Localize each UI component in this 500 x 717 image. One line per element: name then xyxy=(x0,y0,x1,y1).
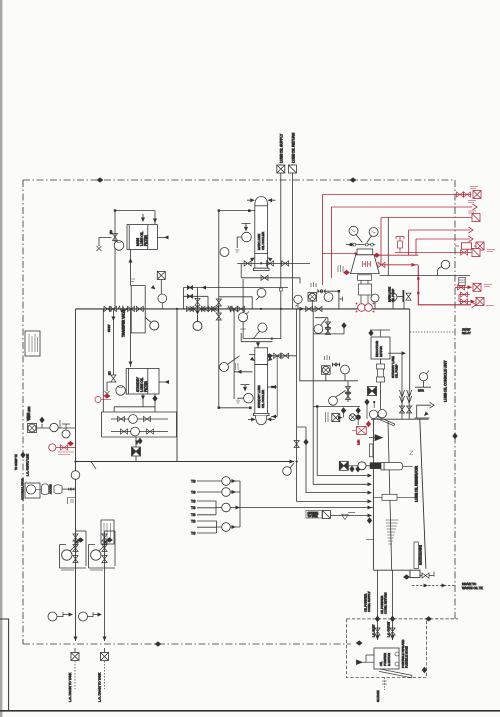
checkered box xyxy=(132,447,141,456)
right stub xyxy=(268,386,273,388)
governor rect xyxy=(357,249,373,255)
red frame riser 1 xyxy=(323,195,472,286)
relief sub-circuit xyxy=(184,288,289,309)
riser to tank top xyxy=(408,390,410,419)
induction motor box xyxy=(371,337,390,359)
svg-text:L.O. DRAIN TO TANK: L.O. DRAIN TO TANK xyxy=(98,673,102,702)
level gauge on left wall xyxy=(369,444,373,457)
wire riser from header xyxy=(103,309,130,412)
gear box xyxy=(359,284,372,295)
wire left main riser xyxy=(75,309,77,641)
note box xyxy=(25,331,40,356)
red bracket rows 294.5/301.5 xyxy=(459,295,475,302)
level mark xyxy=(342,515,349,520)
checkered boxes xyxy=(368,387,377,396)
X boxes xyxy=(71,653,79,661)
filter outlet bottom xyxy=(114,394,155,412)
marks above xyxy=(325,355,330,360)
red H marks in trapezoid xyxy=(363,261,371,267)
right vertical xyxy=(387,218,389,276)
wire xyxy=(76,461,294,463)
svg-text:TRANSFER VALVE: TRANSFER VALVE xyxy=(122,309,126,337)
wire riser supply xyxy=(280,173,282,310)
scan edge band xyxy=(0,0,2,717)
svg-text:TS: TS xyxy=(191,480,196,484)
circle instrument xyxy=(324,293,333,302)
wire xyxy=(37,427,76,429)
console boundary dash-dot xyxy=(23,180,455,644)
red internal lines around trapezoid xyxy=(374,254,418,256)
motor X-circle-box xyxy=(308,293,317,302)
relief spur xyxy=(219,297,252,309)
risers from header down xyxy=(176,309,178,462)
svg-text:VENT: VENT xyxy=(26,413,30,421)
svg-text:CONN. SUPPLY: CONN. SUPPLY xyxy=(367,591,371,612)
right line from chamber xyxy=(268,355,296,357)
wire riser 1: outer xyxy=(317,406,370,475)
slash box top xyxy=(289,165,297,173)
red line 304.8 heavy xyxy=(418,265,471,304)
PCV valve sub xyxy=(315,318,328,334)
tank outline xyxy=(371,419,429,570)
junction circle xyxy=(283,467,292,476)
instruments above xyxy=(238,313,247,322)
discharge slant xyxy=(379,669,412,678)
X-circle-box xyxy=(322,366,331,375)
instrument circle xyxy=(158,294,167,303)
side stub xyxy=(159,381,167,383)
HS element xyxy=(459,277,465,285)
circle xyxy=(341,365,350,374)
svg-text:FILTER: FILTER xyxy=(144,235,148,246)
collector wire xyxy=(230,481,373,527)
circle w diag xyxy=(150,321,159,330)
arrow line xyxy=(388,352,404,354)
flask 2 xyxy=(54,485,62,494)
wire main header xyxy=(76,308,410,310)
circle below header xyxy=(193,322,202,331)
svg-text:FLEXIBLE HOSE: FLEXIBLE HOSE xyxy=(405,646,409,668)
TI instrument xyxy=(242,223,251,230)
motor feed wire xyxy=(370,330,390,337)
svg-text:TS: TS xyxy=(191,532,196,536)
svg-text:ACCUM: ACCUM xyxy=(49,484,53,494)
arrows below xyxy=(137,438,142,445)
svg-text:OIL COOLER: OIL COOLER xyxy=(261,231,265,250)
TI long vertical xyxy=(233,309,235,399)
TS circles xyxy=(222,477,231,486)
coil xyxy=(118,306,126,312)
line y=406.4 xyxy=(313,405,360,407)
svg-text:L.O. DRAIN TO TANK: L.O. DRAIN TO TANK xyxy=(68,673,72,702)
svg-text:TS: TS xyxy=(191,506,196,510)
top line to cooler xyxy=(219,210,255,212)
psv triangle left wall xyxy=(375,435,382,441)
left arrow line xyxy=(362,661,374,663)
header circles xyxy=(371,294,379,302)
red riser 2 xyxy=(332,207,473,278)
header arrow xyxy=(300,307,305,311)
svg-text:NC: NC xyxy=(108,371,112,375)
sub frame xyxy=(68,498,76,505)
transfer circle w slant xyxy=(220,363,229,372)
TI group xyxy=(240,385,249,390)
instruments xyxy=(50,423,58,431)
red line 217 xyxy=(381,218,472,265)
strainer coupler xyxy=(358,462,366,470)
bottom pot xyxy=(410,570,420,577)
svg-text:TO SUMP TK: TO SUMP TK xyxy=(14,454,18,470)
wire riser 3 xyxy=(297,427,370,493)
wall diamond xyxy=(367,517,372,524)
long left vertical xyxy=(218,211,220,408)
terminal syms top xyxy=(457,192,464,197)
red line 239 xyxy=(416,239,470,255)
svg-text:WASTE OIL TK: WASTE OIL TK xyxy=(462,586,483,590)
svg-text:LUBE OIL CONSOLE UNIT: LUBE OIL CONSOLE UNIT xyxy=(444,360,448,402)
standby filter box xyxy=(126,368,159,394)
lower coupling xyxy=(358,275,372,281)
red tag xyxy=(95,393,111,402)
header valves xyxy=(104,306,111,311)
red pumps on header xyxy=(358,304,366,312)
marks above xyxy=(311,282,316,287)
pump2 xyxy=(89,545,116,569)
gauges xyxy=(349,226,358,235)
svg-text:MOTOR: MOTOR xyxy=(379,346,383,357)
transfer valve tall box xyxy=(131,286,145,333)
svg-text:TS: TS xyxy=(191,491,196,495)
vent xbox circle xyxy=(28,424,37,433)
label box lower left xyxy=(101,520,114,544)
arrows to boundary xyxy=(74,637,78,642)
wire top header xyxy=(115,211,155,310)
wire pipe1 xyxy=(377,570,379,640)
tiny reducer on riser xyxy=(279,288,282,291)
svg-text:ST-BY: ST-BY xyxy=(107,324,111,332)
valve on vertical xyxy=(111,375,116,382)
coupling xyxy=(380,359,382,364)
svg-text:SUCTION PIPE: SUCTION PIPE xyxy=(419,545,423,565)
hanging cluster xyxy=(341,407,346,414)
red line 252.5 xyxy=(395,252,472,254)
main lube oil filter box xyxy=(127,225,157,250)
svg-text:CONN. RETURN: CONN. RETURN xyxy=(384,593,388,614)
dome inward arrows xyxy=(250,198,255,202)
trapezoid xyxy=(351,255,380,274)
svg-text:& MOTOR: & MOTOR xyxy=(387,653,391,666)
top feed xyxy=(241,333,272,348)
drop to lower run xyxy=(241,263,300,283)
svg-text:LUBE OIL RESERVOIR: LUBE OIL RESERVOIR xyxy=(415,465,419,502)
left text ticks xyxy=(338,265,343,272)
svg-text:L.O. OUTLET: L.O. OUTLET xyxy=(388,621,391,637)
dashed enclosure xyxy=(347,619,427,678)
chamber side arrows xyxy=(250,357,256,363)
svg-text:LUBE OIL SUPPLY: LUBE OIL SUPPLY xyxy=(280,133,284,163)
tank right wall slanted xyxy=(420,419,426,569)
svg-text:MTR: MTR xyxy=(418,389,424,393)
overflow corner xyxy=(417,405,431,418)
red line 246 xyxy=(455,245,476,247)
flask 1 xyxy=(42,484,49,495)
wire pipe2 xyxy=(392,570,394,640)
vertical w valves xyxy=(347,381,349,402)
wire filter outlet down xyxy=(130,250,132,286)
shell: chamber top, dome bottom xyxy=(255,348,268,365)
bottom-left frame xyxy=(0,619,9,710)
svg-text:TO TANK: TO TANK xyxy=(308,515,319,518)
X box top xyxy=(277,165,285,173)
svg-text:FILTER: FILTER xyxy=(144,381,148,392)
bottom left feed from long vertical xyxy=(219,407,251,409)
TCV symbol xyxy=(398,241,403,248)
figure-8 pump on tank top xyxy=(369,410,377,418)
svg-text:SLUDGE: SLUDGE xyxy=(376,690,380,702)
pump motor link xyxy=(397,296,402,298)
svg-text:NC: NC xyxy=(109,230,113,234)
wire riser return xyxy=(292,173,294,310)
dotted start relay line xyxy=(410,331,454,333)
wire suction branch xyxy=(300,309,358,381)
filled bowties xyxy=(318,289,322,294)
strainer feed xyxy=(348,465,358,467)
suction thermometer xyxy=(414,542,418,569)
svg-text:L.O. INLET: L.O. INLET xyxy=(373,624,376,637)
second coil xyxy=(228,306,236,311)
sub header y=263.4 xyxy=(237,262,310,264)
svg-text:START: START xyxy=(462,328,471,332)
heater frame xyxy=(102,412,177,437)
instrument with slant xyxy=(329,396,338,405)
pump circle xyxy=(116,386,126,396)
shaft line from trapezoid xyxy=(380,275,471,277)
bottom border xyxy=(0,710,500,712)
heater element xyxy=(382,494,397,500)
connector row xyxy=(346,244,375,246)
diamonds xyxy=(356,640,363,645)
circ pumps xyxy=(129,415,138,424)
pump circle PI xyxy=(114,241,124,251)
valve on vertical xyxy=(112,234,117,241)
outside-to-tank label xyxy=(306,511,322,519)
svg-text:OIL COOLER: OIL COOLER xyxy=(261,389,265,408)
red line 230 xyxy=(409,230,470,255)
svg-text:LSH: LSH xyxy=(357,440,361,445)
X-box vent xyxy=(157,271,165,279)
filter side stub xyxy=(157,236,166,238)
dashed drain line xyxy=(412,585,455,587)
basket strainer xyxy=(384,463,403,470)
wires xyxy=(312,291,339,309)
dashed continuation xyxy=(75,661,105,689)
purifier box xyxy=(374,648,399,669)
arrow into box top xyxy=(142,214,144,220)
boundary diamonds xyxy=(97,177,104,182)
svg-text:LUBE OIL RETURN: LUBE OIL RETURN xyxy=(291,132,295,163)
inner suction line xyxy=(388,421,392,570)
level hatching xyxy=(386,520,399,544)
wire riser 2 xyxy=(313,406,370,484)
wire into filter xyxy=(154,211,156,225)
ci instrument xyxy=(220,248,229,257)
dome inward arrows xyxy=(251,417,256,421)
shell right stubs xyxy=(271,356,277,417)
wire from header down xyxy=(312,309,314,407)
svg-text:RELAY: RELAY xyxy=(462,331,471,335)
svg-text:ACCUMULATOR: ACCUMULATOR xyxy=(21,479,25,500)
cooler shell xyxy=(255,197,268,206)
wire riser 4: from header xyxy=(297,309,370,502)
pump1 xyxy=(60,545,87,569)
chamber side arrows xyxy=(250,256,256,262)
svg-text:TS: TS xyxy=(191,500,196,504)
svg-text:TS: TS xyxy=(191,520,196,524)
gauge w syphon loop xyxy=(441,260,450,269)
wire riser below header to cooler feed xyxy=(280,309,282,339)
svg-text:OIL PUMP: OIL PUMP xyxy=(395,364,399,378)
standby cooler feed line xyxy=(243,279,281,339)
svg-text:TS: TS xyxy=(191,513,196,517)
left arrow line xyxy=(234,371,252,373)
filled bowties xyxy=(332,362,336,367)
red line 287.3 xyxy=(455,286,472,288)
svg-text:OIL PUMP: OIL PUMP xyxy=(391,289,395,302)
red label ticks right margin xyxy=(468,187,495,306)
vortex mark xyxy=(410,451,414,455)
svg-text:L.O. SUPPLY LINE: L.O. SUPPLY LINE xyxy=(26,454,30,476)
red box at tank top xyxy=(357,426,367,434)
check valves columns xyxy=(400,390,405,403)
MTR instrument xyxy=(419,373,427,381)
TS stubs xyxy=(197,480,222,482)
